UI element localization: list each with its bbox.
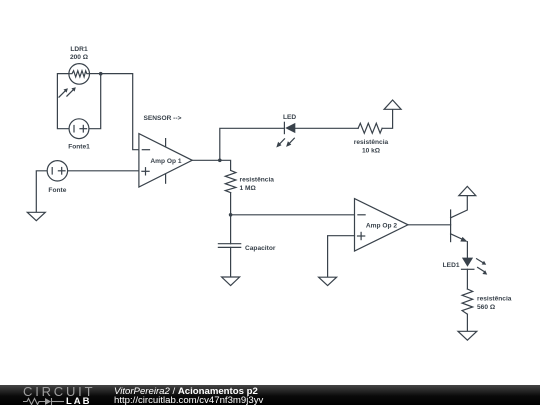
wire Fonte to op-amp U1 non-inverting input [67,170,138,172]
svg-text:Capacitor: Capacitor [245,245,276,252]
power supply VCC (top right) [384,100,401,109]
resistor resistência 560 Ω [462,289,512,314]
resistor resistência 1 MΩ [225,170,274,192]
ground under op-amp U2 input [319,277,337,285]
voltage source Fonte1 [68,119,90,151]
svg-text:LED: LED [283,114,296,121]
svg-text:560 Ω: 560 Ω [477,304,496,311]
wire node B up to LED [220,128,285,160]
svg-text:resistência: resistência [354,139,389,146]
photoresistor LDR1 200 Ω [59,46,89,97]
wire op-amp U1 output to node B and resistor top [192,160,230,170]
LED1 diode [443,258,488,275]
resistor resistência 10 kΩ [354,123,389,154]
wire capacitor to ground [230,247,232,277]
footer url text [114,395,263,406]
svg-text:resistência: resistência [240,177,275,184]
LED diode (top) [276,114,296,147]
label SENSOR [144,115,182,122]
svg-text:200 Ω: 200 Ω [70,54,89,61]
node B junction [218,159,222,163]
wire LED1 to resistor 560 [466,269,468,289]
capacitor Capacitor [218,244,275,252]
wire Fonte left to ground [36,171,47,213]
svg-text:resistência: resistência [477,296,512,303]
footer bar [0,385,540,405]
wire resistor 10k to power [382,109,393,128]
wire left loop LDR1 to Fonte1 [57,74,70,129]
svg-text:LDR1: LDR1 [70,46,88,53]
svg-text:Fonte: Fonte [48,187,66,194]
op-amp U1 Amp Op 1 [139,134,192,187]
svg-text:SENSOR -->: SENSOR --> [144,115,182,122]
svg-text:Fonte1: Fonte1 [68,144,90,151]
node A junction [99,72,103,76]
CircuitLab logo [23,384,95,399]
ground under capacitor [222,277,240,286]
wire resistor 1M to capacitor through node C [230,193,232,244]
power supply VCC (transistor collector) [459,186,476,195]
wire node A down to Fonte1 right [89,74,101,129]
svg-text:1 MΩ: 1 MΩ [240,185,257,192]
wire LED to resistor 10k [295,127,358,129]
svg-text:LED1: LED1 [443,262,460,269]
wire op-amp U2 output to transistor base [408,224,451,226]
wire resistor 560 to ground [466,314,468,331]
wire node A to op-amp U1 inverting input [101,74,139,150]
ground under Fonte [27,212,45,220]
ground under resistor 560 [458,331,477,340]
wire transistor emitter to LED1 [466,242,468,258]
wire op-amp U2 non-inverting input to ground [328,236,355,278]
wire node C to op-amp U2 inverting input [231,214,355,216]
svg-text:10 kΩ: 10 kΩ [362,148,381,155]
transistor Q1 NPN [451,196,468,242]
svg-text:Amp Op 1: Amp Op 1 [150,158,181,165]
op-amp U2 Amp Op 2 [355,199,409,251]
voltage source Fonte [47,161,67,194]
node C junction [229,213,233,217]
svg-text:Amp Op 2: Amp Op 2 [366,223,397,230]
footer title text [114,386,258,397]
wire LDR1 right lead to node A [88,73,100,75]
